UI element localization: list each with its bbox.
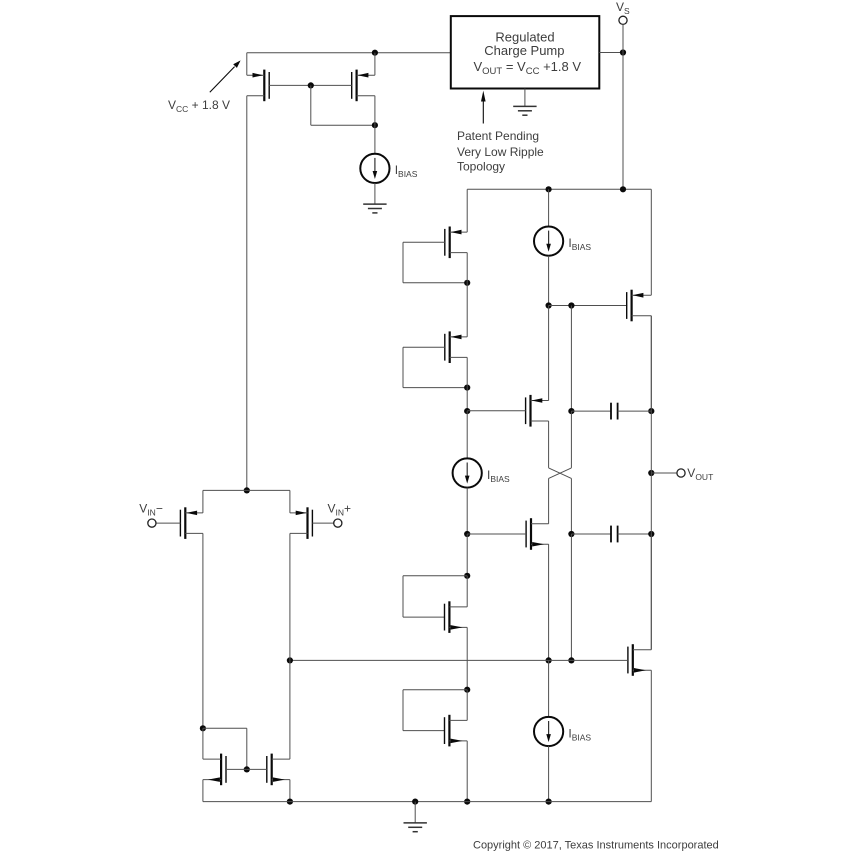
svg-text:Topology: Topology xyxy=(457,160,505,174)
svg-text:Patent Pending: Patent Pending xyxy=(457,129,539,143)
svg-text:Copyright © 2017, Texas Instru: Copyright © 2017, Texas Instruments Inco… xyxy=(473,840,719,852)
svg-text:Charge Pump: Charge Pump xyxy=(484,43,564,58)
svg-text:Very Low Ripple: Very Low Ripple xyxy=(457,145,544,159)
svg-text:Regulated: Regulated xyxy=(495,29,554,44)
